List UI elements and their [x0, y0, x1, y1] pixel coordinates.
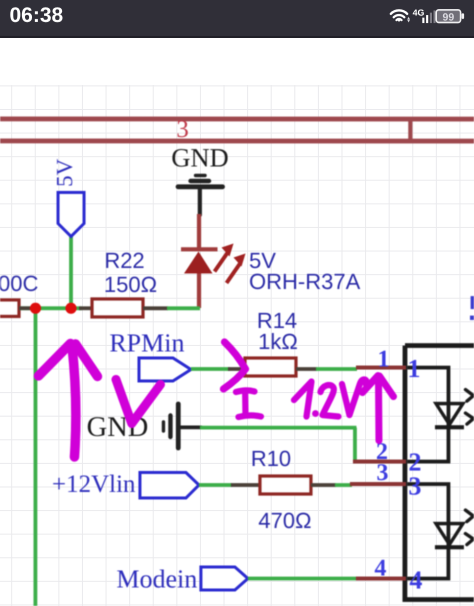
optocoupler U1 box — [405, 346, 474, 600]
wire RPMin to R14 — [191, 367, 230, 371]
label R10 — [251, 446, 291, 471]
resistor R14 — [245, 358, 296, 376]
pin name 2 inside — [408, 448, 421, 477]
pin name 1 inside — [407, 354, 420, 383]
pin name 4 inside — [409, 566, 422, 595]
net flag Modein — [201, 567, 248, 590]
pin number 4 outside — [374, 556, 386, 582]
svg-text:GND: GND — [171, 142, 228, 172]
net flag +12Vlin — [140, 472, 199, 498]
pin number 3 outside — [376, 460, 388, 486]
ground symbol top — [178, 175, 223, 215]
LED emission arrow 2 — [227, 253, 246, 283]
annotation letter I — [236, 390, 261, 417]
pin number 1 outside — [377, 347, 389, 373]
pin 4 line — [356, 577, 406, 581]
wire pin2 vertical — [353, 428, 357, 462]
wire vertical long left — [33, 308, 37, 606]
signal bars — [422, 10, 435, 23]
wire R10 to pin3 — [335, 483, 352, 487]
net label RPMin — [109, 328, 184, 357]
ground GND top label — [171, 142, 228, 172]
net flag RPMin — [139, 358, 191, 381]
internal diode 1 — [435, 404, 464, 428]
svg-text:R10: R10 — [251, 446, 291, 471]
annotation check V — [116, 379, 161, 423]
svg-text:ORH-R37A: ORH-R37A — [249, 269, 361, 294]
LED part ORH-R37A — [249, 269, 361, 294]
wire +12Vlin to R10 — [199, 483, 232, 487]
LED D anode wire — [197, 214, 201, 248]
bus net 3 top line — [0, 117, 474, 122]
pin stub R22 left — [79, 306, 92, 310]
bus net 3 bottom line — [0, 139, 474, 144]
bus entry junction — [408, 117, 412, 143]
pin stub left resistor — [19, 306, 30, 310]
battery 99 — [436, 10, 464, 24]
bus label 3 — [176, 116, 189, 143]
label R14 — [257, 308, 297, 333]
internal diode 2 — [435, 524, 464, 548]
svg-text:+12Vlin: +12Vlin — [52, 471, 136, 498]
wire GND2 to pin2 horizontal — [200, 426, 357, 430]
pin number 2 outside — [376, 439, 388, 465]
svg-text:3: 3 — [408, 472, 421, 501]
annotation big up arrow — [38, 343, 97, 457]
pin stub R22 right — [143, 306, 168, 310]
wire Modein to pin4 — [248, 577, 357, 581]
net label Modein — [116, 564, 197, 593]
LED cathode bar — [181, 247, 218, 251]
resistor partial left — [0, 300, 19, 317]
diode 2 light arrows — [465, 510, 473, 545]
pin 2 line — [353, 460, 406, 464]
pin stub R14 right — [296, 367, 317, 371]
pin stub R10 left — [231, 483, 260, 487]
pin 3 line — [350, 482, 406, 486]
wifi icon — [391, 10, 407, 21]
svg-text:3: 3 — [176, 116, 189, 143]
wire R22 to LED — [167, 306, 200, 310]
label 00C — [0, 271, 38, 296]
pin 1 line — [356, 366, 406, 370]
diode 1 light arrows — [465, 390, 473, 425]
svg-text:R22: R22 — [104, 248, 144, 273]
LED triangle — [184, 251, 213, 273]
partial label at right edge — [470, 296, 474, 320]
svg-text:00C: 00C — [0, 271, 38, 296]
svg-text:RPMin: RPMin — [109, 328, 184, 357]
LED value 5V — [249, 248, 276, 273]
svg-text:1: 1 — [377, 347, 389, 373]
net flag 5V — [58, 192, 84, 236]
clock 06:38 — [9, 4, 63, 27]
svg-text:1kΩ: 1kΩ — [258, 329, 298, 354]
svg-text:3: 3 — [376, 460, 388, 486]
svg-text:5V: 5V — [52, 158, 77, 187]
resistor R10 — [260, 476, 311, 494]
LED lower pin — [197, 273, 201, 308]
svg-text:470Ω: 470Ω — [258, 508, 311, 533]
statusbar bottom shadow — [0, 36, 474, 38]
wire left horizontal — [19, 306, 82, 310]
internal wire pins 1-2 — [407, 368, 448, 462]
internal wire pins 3-4 — [407, 484, 448, 579]
annotation text 1.2V — [294, 379, 367, 417]
annotation small up arrow — [362, 376, 393, 441]
junction node left — [30, 303, 41, 314]
svg-text:1: 1 — [407, 354, 420, 383]
wifi activity arrows — [407, 17, 410, 23]
svg-text:Modein: Modein — [116, 564, 197, 593]
label R22 — [104, 248, 144, 273]
pin name 3 inside — [408, 472, 421, 501]
wire 5V flag drop — [69, 236, 73, 308]
junction node 5V — [65, 303, 76, 314]
net label 5V — [52, 158, 77, 187]
pin stub R14 left — [228, 367, 245, 371]
label 1kohm — [258, 329, 298, 354]
net label +12Vlin — [52, 471, 136, 498]
ground symbol left-pointing — [163, 404, 201, 448]
annotation chevron at R14 — [223, 342, 245, 389]
pin stub R10 right — [311, 483, 336, 487]
4G label — [413, 8, 425, 18]
svg-text:4: 4 — [374, 556, 386, 582]
svg-text:4: 4 — [409, 566, 422, 595]
ground GND2 label — [87, 412, 149, 443]
label 150ohm — [104, 272, 157, 297]
resistor R22 — [92, 299, 143, 317]
label 470ohm — [258, 508, 311, 533]
svg-text:150Ω: 150Ω — [104, 272, 157, 297]
wire R14 to pin1 — [316, 367, 357, 371]
LED emission arrow 1 — [215, 243, 234, 271]
